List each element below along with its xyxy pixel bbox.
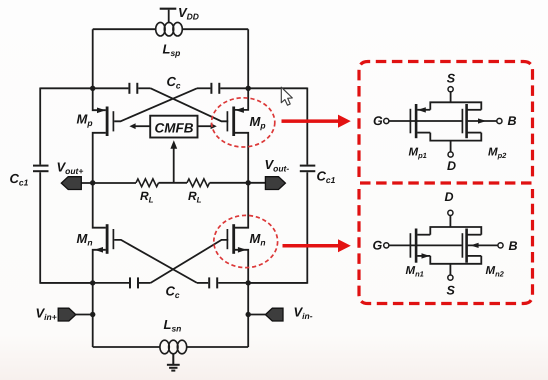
transistor Mn1 gate bar — [409, 233, 411, 258]
arrow right Mp source — [235, 107, 244, 113]
transistor Mp2 gate bar — [461, 109, 463, 134]
arrow left Mn source — [94, 247, 103, 253]
transistor Mp left gate bar — [112, 111, 114, 131]
pin S stem — [450, 92, 452, 103]
wire Mn2 drain — [467, 234, 482, 236]
inductor Lsp — [156, 22, 183, 36]
svg-text:B: B — [509, 239, 518, 253]
wire top rail right segment — [182, 28, 248, 30]
wire bottom cross line right — [218, 282, 307, 284]
wire bottom rail left — [93, 346, 160, 348]
node Vout+ — [90, 180, 95, 185]
wire left outer rail lower — [40, 172, 92, 283]
wire Mp2 source — [467, 109, 482, 111]
terminal Vout- — [265, 177, 285, 190]
transistor Mp2 channel bar — [465, 104, 468, 138]
wire right outer rail upper — [306, 88, 308, 165]
svg-text:D: D — [447, 159, 456, 173]
arrow CMFB right — [211, 123, 217, 129]
wire Vin+ stub — [76, 314, 93, 316]
red dashed box bottom (NMOS pair) — [359, 189, 533, 304]
transistor Mn2 channel bar — [465, 229, 468, 263]
wire Mn2 source — [467, 255, 482, 257]
node Vin- — [246, 312, 251, 317]
arrow CMFB bottom — [170, 140, 177, 149]
transistor Mn right gate bar — [226, 229, 228, 249]
red arrow to bottom box — [283, 239, 351, 252]
wire bottom rail right — [187, 346, 249, 348]
wire left source vertical — [93, 29, 106, 110]
wire cap to diagonal bottom-left — [139, 282, 151, 284]
wire left Mp drain — [93, 133, 106, 228]
svg-text:G: G — [373, 114, 383, 128]
capacitor Cc bottom-left — [130, 277, 138, 288]
node Vout- — [246, 180, 251, 185]
transistor Mp left channel bar — [106, 107, 109, 137]
wire top staple — [430, 227, 481, 235]
wire right outer rail lower — [248, 172, 307, 283]
capacitor Cc top-right — [211, 83, 219, 94]
svg-text:B: B — [508, 114, 517, 128]
junction dots — [90, 86, 251, 318]
wire CMFB bottom arrow — [173, 147, 175, 183]
wire top staple — [430, 102, 481, 110]
arrow left Mp source — [97, 108, 106, 114]
capacitor Cc bottom-right — [209, 277, 217, 288]
capacitor Cc1 right — [300, 166, 316, 172]
transistor Mp1 channel bar — [415, 104, 418, 138]
pin D stem — [450, 141, 452, 152]
wire Mp1 source — [417, 109, 430, 111]
wire bottom staple — [430, 256, 481, 264]
wire top cross line right — [220, 87, 307, 89]
svg-text:S: S — [447, 72, 456, 86]
wire G line — [389, 120, 462, 122]
pin D stem — [449, 216, 451, 228]
wire right Mn gate lead and diagonal — [151, 240, 229, 283]
node top-left source junction — [90, 86, 95, 91]
terminal Vin- — [265, 308, 283, 321]
wire diagonal to left Mp gate — [114, 88, 197, 121]
wire Mp1 drain — [417, 132, 430, 134]
wire top cross line left — [40, 87, 128, 89]
transistor Mn1 channel bar — [415, 229, 418, 263]
arrow Mp1 source — [418, 107, 426, 112]
wire B lead — [468, 120, 497, 122]
node top-right source junction — [246, 86, 251, 91]
wire left outer rail upper — [39, 88, 41, 165]
power VDD symbol — [168, 10, 170, 23]
svg-text:G: G — [373, 239, 383, 253]
capacitor Cc1 left — [33, 166, 49, 172]
svg-text:D: D — [445, 190, 454, 204]
transistor Mp1 gate bar — [409, 109, 411, 134]
inductor Lsn — [160, 340, 187, 354]
composite PMOS inside top box — [384, 87, 502, 157]
wire left Mn gate lead and diagonal — [114, 240, 197, 283]
wire diagonal to right Mp gate — [151, 88, 229, 121]
wire Vin- stub — [248, 314, 265, 316]
composite NMOS inside bottom box — [384, 210, 503, 280]
pin circles — [448, 87, 453, 92]
svg-text:S: S — [447, 284, 456, 298]
wire top rail left segment — [93, 28, 156, 30]
wire left Mn source — [93, 250, 106, 347]
wire bottom cross line left — [40, 282, 129, 284]
red dashed ellipse around right Mn — [214, 215, 278, 267]
resistor RL left — [136, 179, 159, 187]
arrow B lead (points left) — [470, 243, 478, 248]
ground — [167, 354, 180, 371]
red arrow to top box — [282, 115, 351, 128]
node bottom-left junction — [90, 280, 95, 285]
block CMFB box — [150, 116, 197, 138]
wire right Mp drain — [235, 133, 248, 228]
resistor RL right — [187, 179, 210, 187]
wire Vout- row right — [210, 182, 266, 184]
wire Mp2 drain — [467, 132, 482, 134]
transistor Mn left channel bar — [106, 224, 109, 254]
wire right Mn source — [235, 250, 248, 347]
wire right source vertical — [235, 29, 248, 110]
wire bottom staple — [430, 133, 481, 141]
transistor Mn2 gate bar — [461, 233, 463, 258]
terminal Vout+ — [61, 177, 81, 190]
arrow Mn1 source — [422, 253, 430, 258]
transistor Mp right channel bar — [232, 107, 235, 137]
node bottom-right junction — [246, 280, 251, 285]
wire CMFB left arrow — [135, 125, 150, 127]
node Vin+ — [90, 312, 95, 317]
wire between cap and diagonal — [138, 87, 150, 89]
wire CMFB right arrow — [198, 125, 212, 127]
terminal Vin+ — [58, 308, 76, 321]
transistor Mn left gate bar — [112, 229, 114, 249]
transistor Mn right channel bar — [232, 224, 235, 254]
wire B lead — [468, 244, 498, 246]
capacitor Cc top-left — [129, 83, 137, 94]
mouse cursor — [281, 87, 292, 105]
transistor Mp right gate bar — [226, 111, 228, 131]
pin circles — [448, 210, 453, 215]
shared boundary line between boxes — [360, 181, 532, 184]
arrow right Mn source — [238, 247, 247, 253]
red dashed box top (PMOS pair) — [359, 62, 533, 178]
red dashed ellipse around right Mp — [212, 98, 275, 147]
wire Mn1 drain — [417, 234, 430, 236]
pin S stem — [449, 264, 451, 275]
wire G line — [389, 244, 462, 246]
wire between diagonal and right cap — [197, 87, 210, 89]
wire diagonal landing to right cap — [197, 282, 208, 284]
arrow CMFB left — [129, 123, 135, 129]
arrow B lead — [478, 118, 486, 123]
transistor source arrows — [94, 107, 246, 252]
wire Vout+ row left — [81, 182, 136, 184]
svg-text:CMFB: CMFB — [155, 120, 194, 135]
wire between resistors — [159, 182, 188, 184]
wire Mn1 source — [417, 255, 430, 257]
